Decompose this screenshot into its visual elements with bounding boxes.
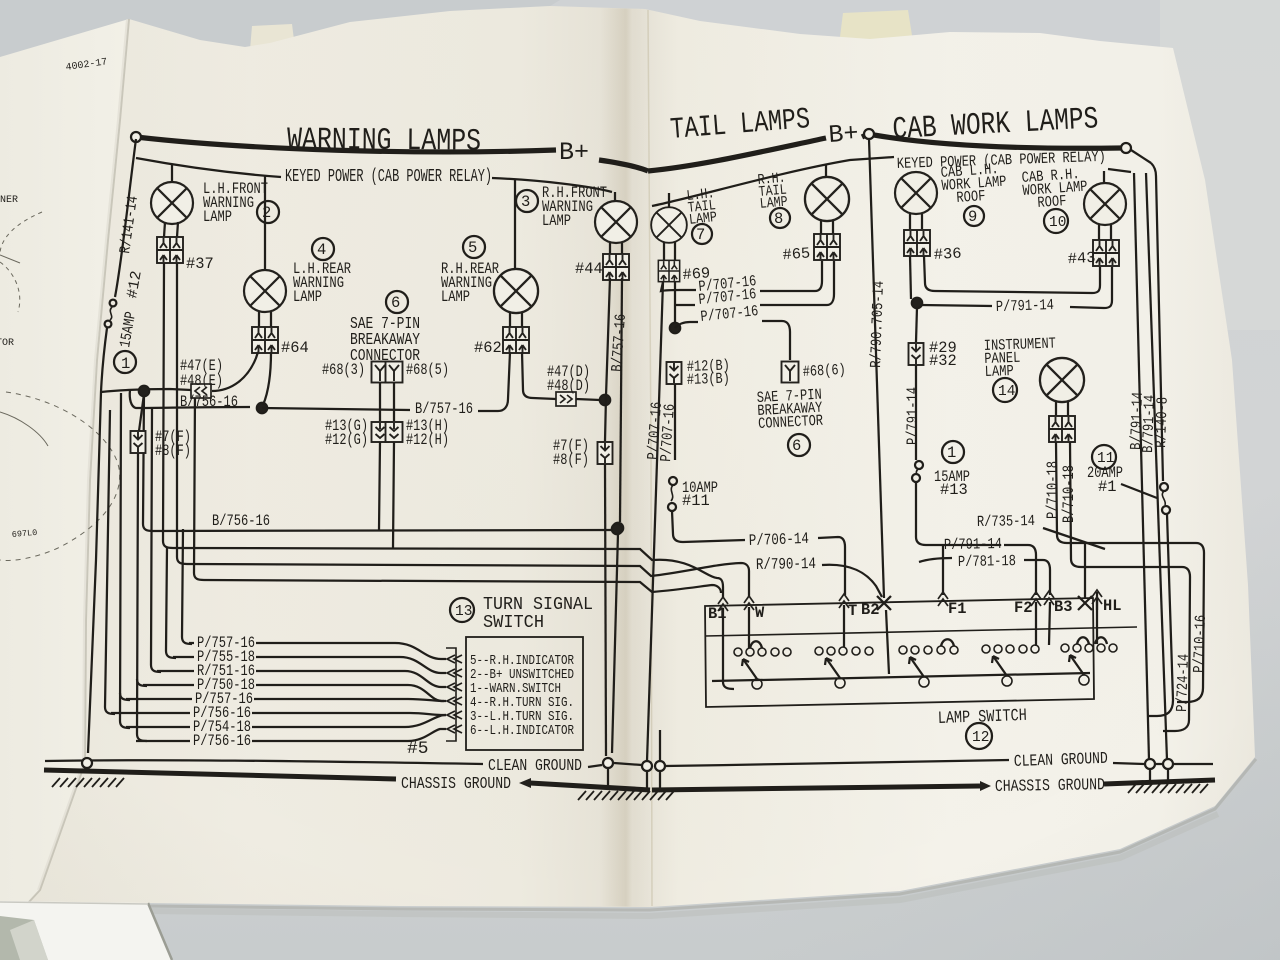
svg-text:LAMP SWITCH: LAMP SWITCH bbox=[938, 707, 1028, 729]
svg-text:B/756-16: B/756-16 bbox=[212, 512, 270, 530]
svg-text:CHASSIS GROUND: CHASSIS GROUND bbox=[401, 774, 511, 793]
svg-text:#8(F): #8(F) bbox=[155, 442, 191, 460]
svg-text:6--L.H.INDICATOR: 6--L.H.INDICATOR bbox=[470, 724, 574, 739]
svg-text:#8(F): #8(F) bbox=[553, 451, 589, 469]
svg-text:#13: #13 bbox=[940, 481, 968, 499]
svg-text:F1: F1 bbox=[948, 600, 966, 618]
svg-text:P/791-14: P/791-14 bbox=[944, 535, 1002, 554]
svg-text:B+: B+ bbox=[828, 119, 860, 150]
svg-text:#64: #64 bbox=[281, 339, 309, 357]
svg-text:#62: #62 bbox=[474, 339, 502, 357]
svg-text:WARNING LAMPS: WARNING LAMPS bbox=[287, 123, 481, 160]
svg-text:CLEAN GROUND: CLEAN GROUND bbox=[1014, 749, 1109, 771]
svg-text:KEYED POWER (CAB POWER RELAY): KEYED POWER (CAB POWER RELAY) bbox=[285, 167, 492, 187]
svg-text:#12(H): #12(H) bbox=[406, 431, 449, 449]
svg-text:1--WARN.SWITCH: 1--WARN.SWITCH bbox=[470, 682, 561, 697]
svg-text:8: 8 bbox=[774, 210, 783, 228]
svg-text:4: 4 bbox=[317, 241, 326, 259]
svg-text:#1: #1 bbox=[1098, 478, 1116, 496]
svg-text:P/710-16: P/710-16 bbox=[1190, 615, 1210, 674]
svg-text:CLEAN GROUND: CLEAN GROUND bbox=[488, 756, 582, 775]
svg-text:2: 2 bbox=[262, 204, 271, 222]
svg-text:R/790.705-14: R/790.705-14 bbox=[867, 281, 888, 369]
svg-text:LAMP: LAMP bbox=[203, 208, 232, 226]
svg-text:#12(G): #12(G) bbox=[325, 431, 368, 449]
svg-text:SWITCH: SWITCH bbox=[483, 612, 544, 633]
svg-text:#68(6): #68(6) bbox=[802, 361, 846, 381]
svg-text:#44: #44 bbox=[575, 260, 603, 278]
svg-text:12: 12 bbox=[972, 730, 989, 746]
svg-text:F2: F2 bbox=[1014, 599, 1032, 617]
svg-text:#48(E): #48(E) bbox=[180, 372, 223, 390]
svg-text:4--R.H.TURN SIG.: 4--R.H.TURN SIG. bbox=[470, 696, 574, 711]
svg-text:ROOF: ROOF bbox=[956, 187, 986, 207]
svg-text:2--B+ UNSWITCHED: 2--B+ UNSWITCHED bbox=[470, 668, 574, 683]
svg-text:B/710-18: B/710-18 bbox=[1060, 465, 1078, 523]
svg-text:TOR: TOR bbox=[0, 338, 14, 349]
svg-text:LAMP: LAMP bbox=[984, 362, 1014, 381]
svg-text:LAMP: LAMP bbox=[293, 288, 322, 306]
svg-text:P/756-16: P/756-16 bbox=[193, 732, 251, 750]
svg-text:3--L.H.TURN SIG.: 3--L.H.TURN SIG. bbox=[470, 710, 574, 725]
svg-text:#65: #65 bbox=[782, 244, 811, 264]
svg-text:6: 6 bbox=[792, 437, 801, 455]
svg-text:INER: INER bbox=[0, 195, 18, 206]
svg-text:13: 13 bbox=[455, 604, 472, 620]
svg-text:LAMP: LAMP bbox=[688, 210, 718, 229]
svg-text:6: 6 bbox=[391, 294, 400, 312]
svg-text:5--R.H.INDICATOR: 5--R.H.INDICATOR bbox=[470, 654, 574, 669]
svg-text:10: 10 bbox=[1049, 215, 1066, 231]
svg-text:7: 7 bbox=[696, 226, 705, 244]
svg-text:ROOF: ROOF bbox=[1037, 192, 1067, 212]
svg-text:P/706-14: P/706-14 bbox=[749, 530, 810, 550]
svg-text:LAMP: LAMP bbox=[542, 212, 571, 230]
svg-text:B/757-16: B/757-16 bbox=[415, 400, 473, 418]
svg-text:P/781-18: P/781-18 bbox=[958, 552, 1016, 571]
svg-text:HL: HL bbox=[1103, 597, 1121, 615]
svg-text:B1: B1 bbox=[708, 605, 726, 623]
svg-text:P/791-14: P/791-14 bbox=[996, 296, 1055, 316]
svg-text:LAMP: LAMP bbox=[759, 194, 788, 212]
svg-text:3: 3 bbox=[521, 193, 530, 211]
svg-text:W: W bbox=[755, 604, 765, 622]
svg-text:#68(5): #68(5) bbox=[406, 361, 449, 379]
svg-text:B3: B3 bbox=[1054, 598, 1072, 616]
svg-text:#43: #43 bbox=[1067, 249, 1096, 268]
svg-text:#68(3): #68(3) bbox=[322, 361, 365, 379]
svg-text:5: 5 bbox=[468, 239, 477, 257]
svg-text:#32: #32 bbox=[929, 352, 957, 370]
svg-text:B+: B+ bbox=[559, 138, 589, 167]
svg-text:#13(B): #13(B) bbox=[687, 370, 731, 389]
svg-text:#11: #11 bbox=[682, 492, 710, 510]
svg-text:B/756-16: B/756-16 bbox=[180, 393, 238, 411]
svg-text:#36: #36 bbox=[933, 245, 962, 264]
svg-text:1: 1 bbox=[947, 444, 956, 462]
svg-text:#37: #37 bbox=[186, 255, 214, 273]
svg-text:#5: #5 bbox=[407, 739, 428, 759]
svg-text:R/140-8: R/140-8 bbox=[1152, 397, 1172, 449]
svg-text:9: 9 bbox=[968, 208, 977, 226]
svg-text:R/735-14: R/735-14 bbox=[977, 512, 1035, 531]
svg-text:T: T bbox=[848, 602, 857, 620]
svg-text:LAMP: LAMP bbox=[441, 288, 470, 306]
svg-text:CHASSIS GROUND: CHASSIS GROUND bbox=[995, 775, 1105, 796]
svg-text:B2: B2 bbox=[861, 601, 879, 619]
svg-text:#48(D): #48(D) bbox=[547, 377, 590, 395]
svg-text:14: 14 bbox=[998, 384, 1015, 400]
svg-text:P/791-14: P/791-14 bbox=[904, 387, 922, 445]
svg-text:CONNECTOR: CONNECTOR bbox=[758, 412, 824, 433]
svg-text:R/790-14: R/790-14 bbox=[756, 555, 816, 574]
svg-text:1: 1 bbox=[121, 355, 130, 373]
